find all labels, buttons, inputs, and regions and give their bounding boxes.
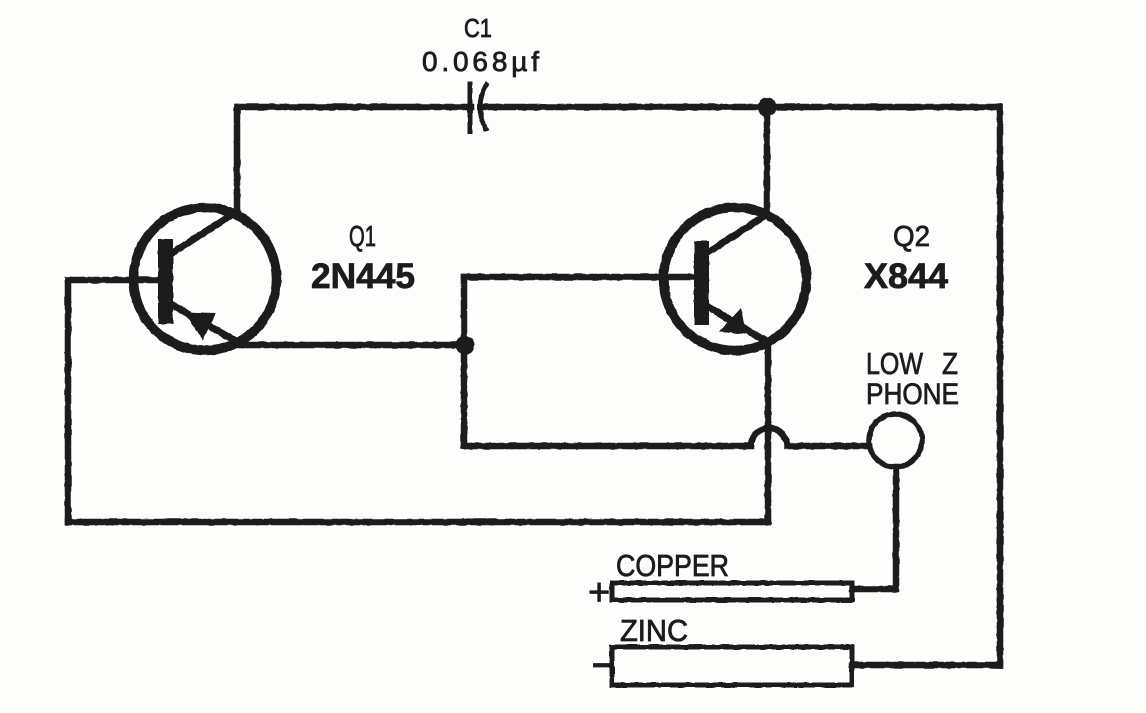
wire junction vertical	[461, 277, 468, 446]
electrode zinc plate	[612, 647, 852, 685]
wire Q2 collector vertical	[764, 107, 771, 215]
earphone LOW Z PHONE	[869, 414, 922, 467]
wire left rail vertical	[65, 280, 72, 522]
wire Q2 emitter vertical	[765, 344, 772, 522]
svg-text:+: +	[588, 572, 610, 614]
svg-text:Z: Z	[942, 346, 958, 381]
wire Q1 base	[68, 277, 158, 284]
wire Q1 collector drop	[234, 107, 241, 212]
svg-text:ZINC: ZINC	[620, 613, 688, 648]
wire phone feed with hop	[464, 428, 869, 446]
wire Q1 emitter horizontal	[241, 342, 464, 349]
svg-text:COPPER: COPPER	[616, 548, 729, 583]
svg-text:−: −	[592, 647, 611, 683]
svg-text:Q2: Q2	[893, 221, 930, 253]
junction node (C1 / Q2 collector / right rail)	[758, 98, 777, 117]
svg-text:X844: X844	[864, 257, 949, 296]
svg-text:PHONE: PHONE	[866, 378, 959, 411]
capacitor C1	[470, 84, 486, 131]
svg-text:LOW: LOW	[866, 346, 924, 381]
wire top left (C1 left lead)	[237, 104, 471, 111]
wire Q2 base horizontal	[464, 274, 694, 281]
wire zinc to right rail	[852, 662, 1000, 669]
junction node (Q1 emitter / Q2 base / feedback)	[456, 336, 475, 355]
transistor Q2	[664, 208, 807, 351]
wire phone bottom drop	[852, 467, 896, 589]
transistor Q1	[134, 208, 277, 351]
wire bottom rail horizontal	[68, 519, 768, 526]
svg-text:C1: C1	[464, 13, 492, 43]
svg-text:2N445: 2N445	[311, 257, 415, 296]
electrode copper plate	[612, 583, 852, 600]
svg-text:Q1: Q1	[349, 221, 376, 253]
wire top right (C1 right plate to corner)	[485, 104, 1000, 111]
wire right rail vertical	[997, 107, 1004, 665]
